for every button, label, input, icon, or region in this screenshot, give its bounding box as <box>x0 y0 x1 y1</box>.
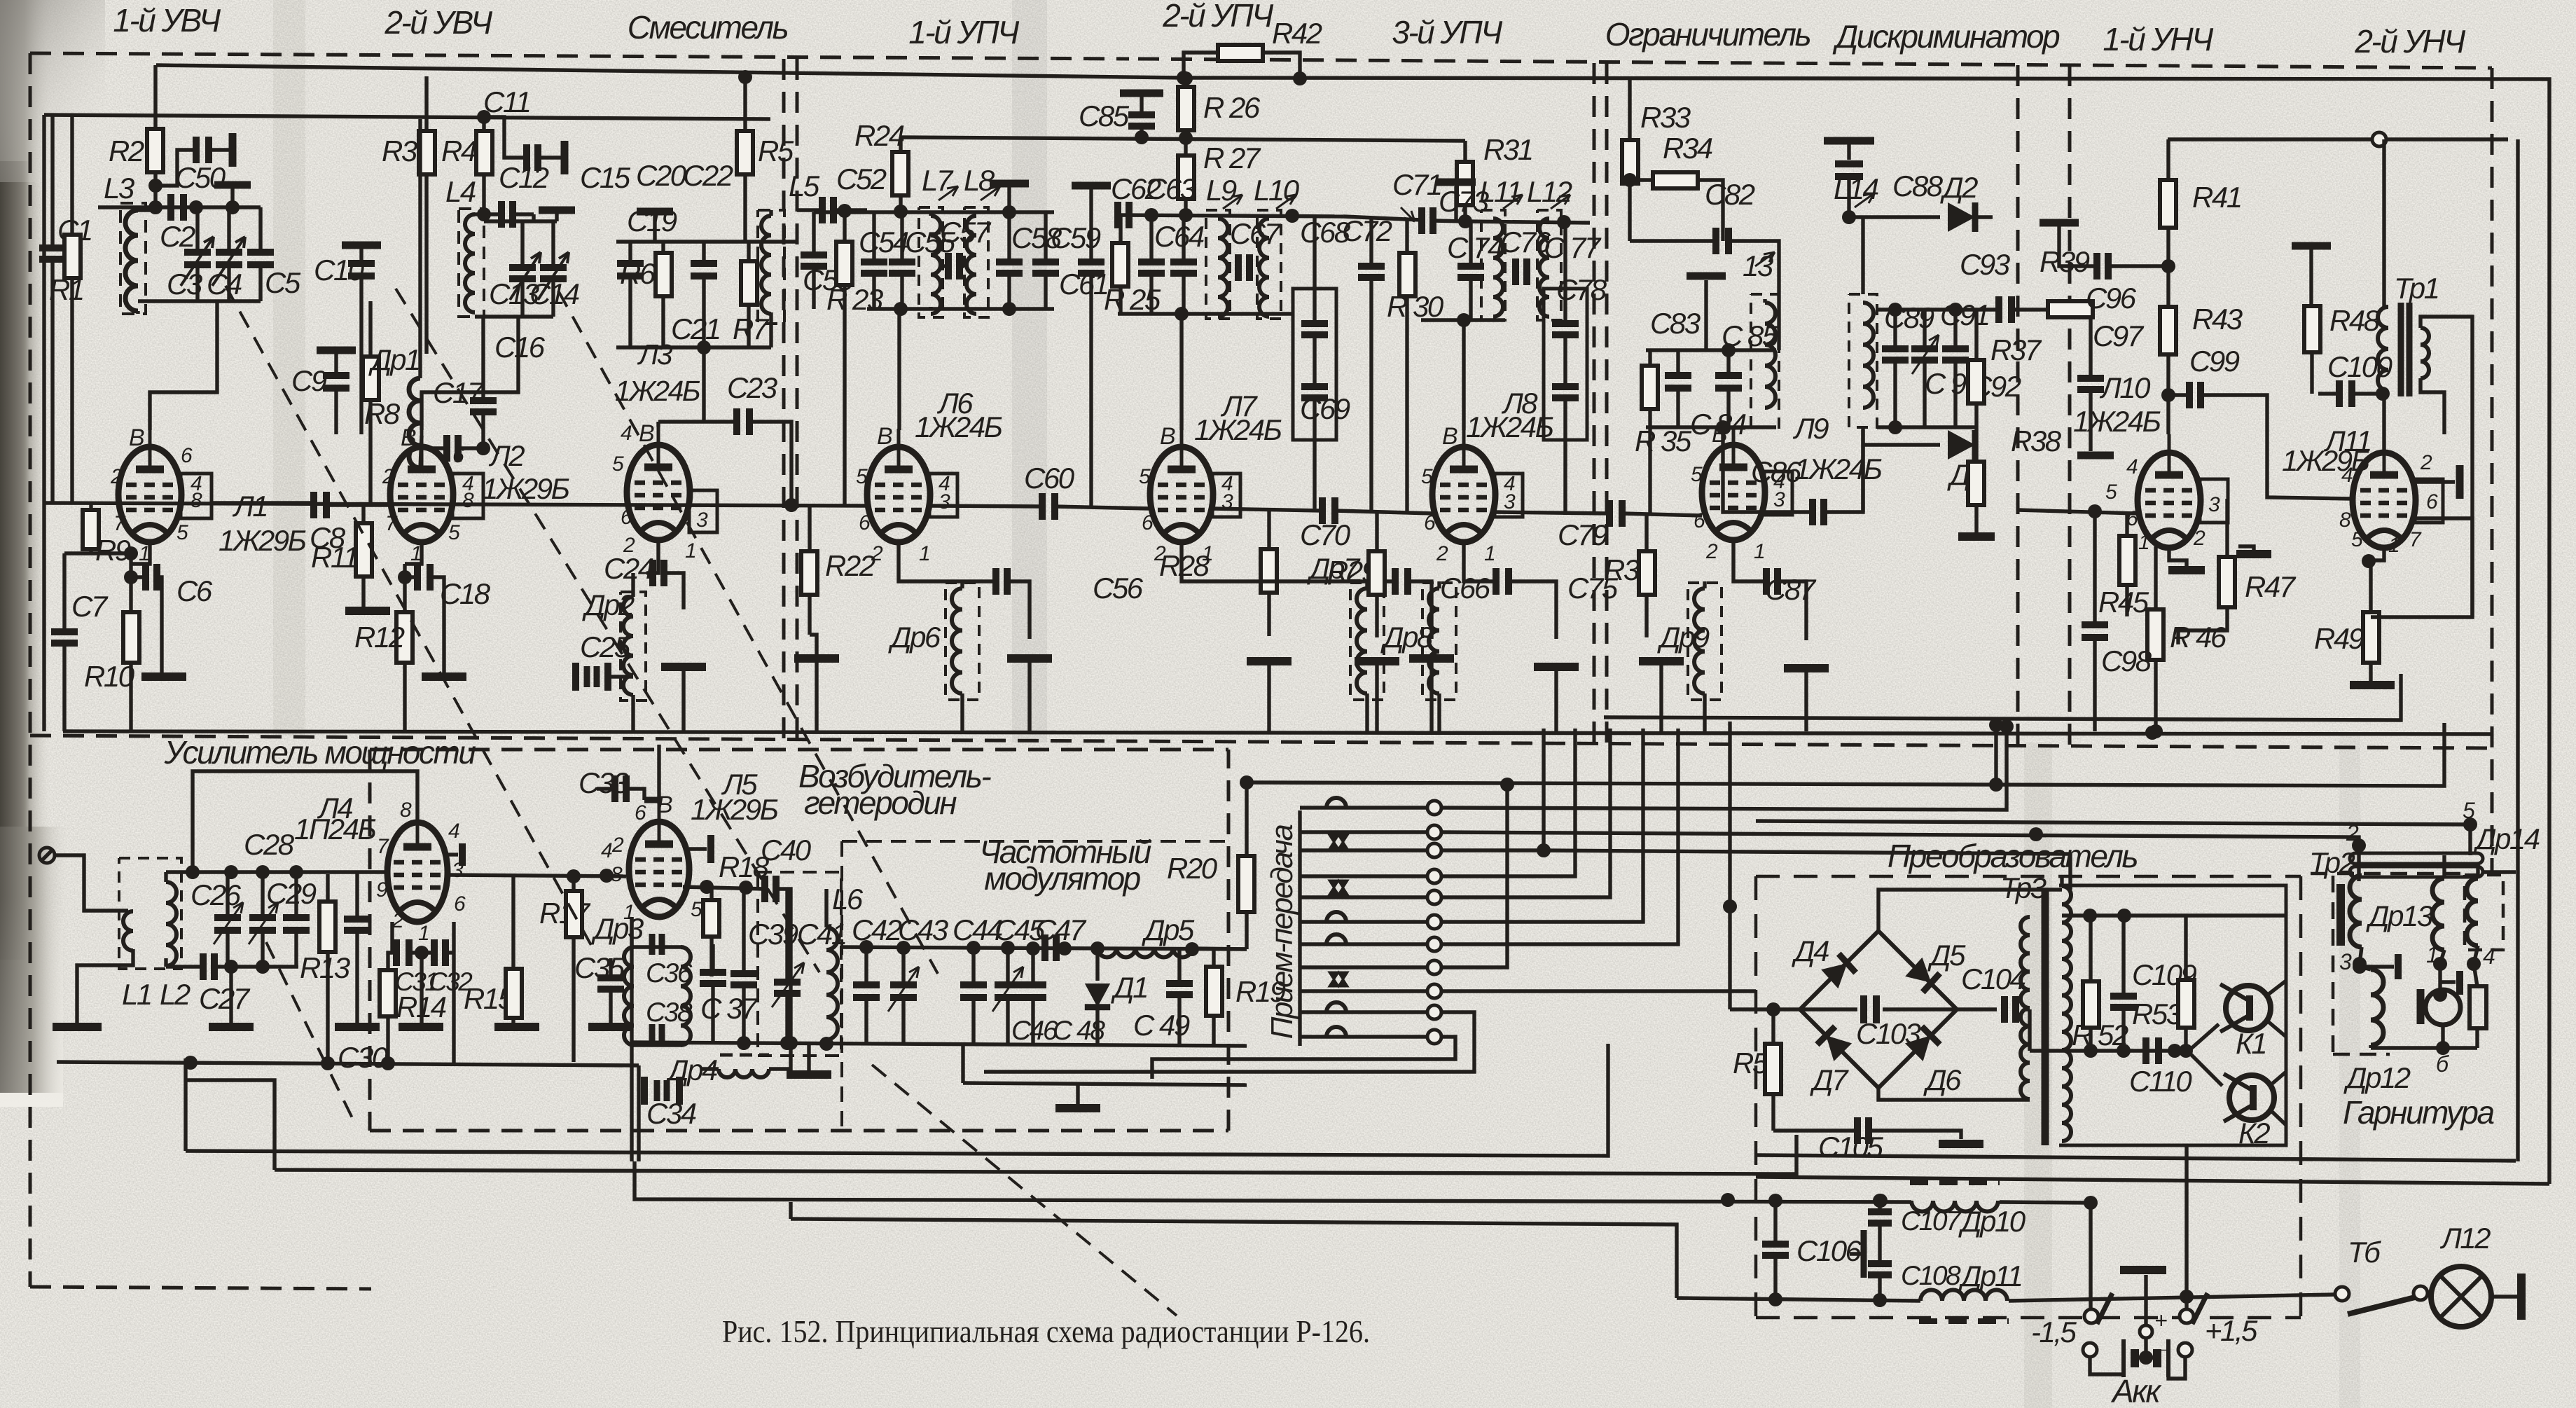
resistor R11 label <box>311 541 357 574</box>
svg-text:R9: R9 <box>95 534 131 567</box>
resistor R18 label <box>719 850 770 883</box>
diode D3 (Д3) <box>1863 430 1976 460</box>
transformer Tr2 (Тр2) <box>2341 876 2367 971</box>
resistor R8 label <box>364 397 401 430</box>
section label Возбудитель-гетеродин <box>798 758 991 821</box>
capacitor C47 label <box>1035 913 1087 946</box>
capacitor C64 <box>1138 215 1165 314</box>
svg-text:Д4: Д4 <box>1792 934 1829 967</box>
resistor R9 <box>64 504 138 560</box>
capacitor C89 label <box>1884 301 1934 334</box>
long line L3 <box>635 1161 2098 1210</box>
switch row10 wire <box>984 1012 1474 1072</box>
resistor R36 <box>1639 516 1655 637</box>
modulator sub line <box>963 1044 1247 1108</box>
capacitor C11 <box>477 110 565 174</box>
transformer Tr3 label <box>2000 871 2047 904</box>
capacitor C83 <box>1665 350 1691 427</box>
capacitor C82 label <box>1705 178 1755 211</box>
svg-text:Л10: Л10 <box>2099 371 2151 404</box>
capacitor C62 label <box>1111 172 1161 205</box>
svg-text:Др6: Др6 <box>888 621 941 654</box>
capacitor C53 label <box>803 263 853 296</box>
section label 2-й УНЧ <box>2354 23 2466 60</box>
capacitor C16 <box>470 317 497 448</box>
svg-text:R4: R4 <box>441 134 476 167</box>
svg-text:В: В <box>129 425 144 451</box>
trimmer capacitor C90 <box>1911 310 1939 427</box>
svg-text:С 77: С 77 <box>1544 231 1602 264</box>
capacitor C96 <box>2040 223 2168 279</box>
capacitor C20a <box>617 242 644 347</box>
resistor R24 label <box>854 119 904 152</box>
choke Dr7 (Др7) <box>1350 581 1384 731</box>
capacitors C68 C69 block <box>1293 216 1336 509</box>
capacitor C50 label <box>175 161 226 194</box>
converter block frame <box>2059 885 2286 1145</box>
lamp V12 (Л12) label <box>2439 1222 2491 1255</box>
headset bottom wire <box>2371 1041 2477 1055</box>
svg-text:Усилитель мощности: Усилитель мощности <box>164 734 476 771</box>
svg-text:С104: С104 <box>1961 962 2026 995</box>
stage1 tank bottom tie <box>138 301 261 430</box>
svg-text:Др3: Др3 <box>591 912 644 945</box>
resistor R4 label <box>441 134 476 167</box>
exciter dashed box <box>370 750 1228 1131</box>
capacitor C72 <box>1358 216 1385 512</box>
capacitor C42 label <box>852 913 902 946</box>
capacitor C17 <box>429 435 490 462</box>
capacitor C16 label <box>494 331 546 364</box>
capacitor C106 label <box>1796 1234 1862 1267</box>
tube V3 (Л3) label <box>615 338 700 407</box>
svg-text:В: В <box>1160 423 1175 450</box>
svg-text:4: 4 <box>601 839 612 862</box>
PA anode frame wire <box>186 771 417 879</box>
limiter tank top tie <box>1646 343 1776 357</box>
tube V3 pin labels <box>612 420 708 562</box>
svg-text:C18: C18 <box>440 577 491 610</box>
capacitor C40 <box>765 876 791 1044</box>
toggle switch Тб <box>2335 1286 2428 1314</box>
feedthrough capacitor C25 <box>576 663 633 691</box>
switch contact row 10 <box>1300 1002 1441 1019</box>
capacitor C97 <box>2077 310 2114 455</box>
screen rail <box>901 137 1465 141</box>
capacitor C66 <box>1182 542 1432 639</box>
svg-text:С30: С30 <box>338 1041 389 1074</box>
IF1 tank top tie <box>814 204 1054 219</box>
IF3 grounds <box>1355 661 1579 731</box>
svg-text:Д1: Д1 <box>1111 971 1147 1004</box>
tube V1 (Л1) <box>118 429 212 542</box>
svg-text:+1,5: +1,5 <box>2205 1314 2258 1347</box>
svg-text:L5: L5 <box>789 170 820 202</box>
svg-text:С83: С83 <box>1650 307 1701 340</box>
inductor L10 <box>1257 210 1281 319</box>
svg-text:1: 1 <box>418 922 429 945</box>
choke Dr10 (Др10) <box>1910 1182 2000 1212</box>
capacitor C25 label <box>580 630 631 663</box>
svg-text:R41: R41 <box>2192 181 2241 214</box>
svg-text:4: 4 <box>2341 464 2353 487</box>
svg-text:R24: R24 <box>854 119 904 152</box>
capacitor C6 <box>124 542 162 672</box>
capacitor C28c <box>283 872 310 967</box>
capacitor C47 <box>1045 934 1056 961</box>
capacitor C12 label <box>499 161 549 194</box>
svg-text:L2: L2 <box>160 978 191 1011</box>
choke Dr11 label <box>1958 1259 2022 1292</box>
svg-text:4: 4 <box>621 422 632 445</box>
switch row7 wire <box>1441 729 1678 944</box>
resistor R7 <box>741 242 757 347</box>
resistor R6 label <box>620 257 656 290</box>
capacitor C84 <box>1715 350 1742 427</box>
capacitor C7 <box>51 553 78 731</box>
svg-text:1: 1 <box>2388 534 2399 557</box>
svg-text:4: 4 <box>448 820 459 843</box>
svg-text:Рис. 152. Принципиальная схема: Рис. 152. Принципиальная схема радиостан… <box>722 1314 1370 1349</box>
phone <box>2470 964 2486 1048</box>
capacitor C9 label <box>291 364 327 397</box>
section label 2-й УПЧ <box>1162 0 1274 34</box>
lamp V12 (Л12) <box>2431 1266 2521 1327</box>
capacitor C29 label <box>266 877 317 910</box>
resistor R30 label <box>1387 290 1444 323</box>
resistor R2 <box>147 65 163 214</box>
discriminator top tie <box>1877 303 1976 317</box>
svg-text:Д7: Д7 <box>1810 1063 1849 1096</box>
svg-text:С63: С63 <box>1146 172 1196 205</box>
svg-text:Дискриминатор: Дискриминатор <box>1832 18 2060 55</box>
choke Dr4 label <box>665 1054 717 1086</box>
capacitor C60 <box>929 493 1149 520</box>
pin 5 label <box>2463 798 2475 823</box>
capacitor C28 label <box>244 828 295 861</box>
svg-text:R11: R11 <box>311 541 357 574</box>
capacitor C91 label <box>1940 298 1989 331</box>
svg-text:4: 4 <box>2483 944 2495 969</box>
long line L2 <box>186 1080 1796 1174</box>
IF1 tank bottom tie <box>867 302 1054 316</box>
capacitor C52 <box>797 197 867 223</box>
capacitor C33 label <box>579 766 629 799</box>
converter node line <box>2062 909 2286 923</box>
tube V10 (Л10) label <box>2073 371 2161 438</box>
tube V9 (Л9) label <box>1792 412 1882 485</box>
resistor R45 label <box>2098 586 2149 619</box>
signal line stage1-3 <box>44 503 868 506</box>
svg-text:C25: C25 <box>580 630 631 663</box>
capacitor C63 <box>1170 215 1197 314</box>
resistor R27 <box>1178 139 1194 215</box>
section divider Дискриминатор/1-й УНЧ <box>2016 65 2020 745</box>
svg-text:Др1: Др1 <box>368 343 420 376</box>
section label 1-й УНЧ <box>2103 21 2214 57</box>
switch row1 wire <box>1441 719 2014 810</box>
svg-text:R39: R39 <box>2040 245 2090 278</box>
tube V6 pin labels <box>856 423 950 565</box>
capacitor C45b <box>1020 948 1046 1044</box>
inductor L7 <box>919 207 943 317</box>
resistor R2 label <box>109 134 144 167</box>
choke Dr3 (Др3) <box>624 917 691 1045</box>
svg-text:C24: C24 <box>604 552 653 585</box>
IF2 tank top tie <box>1118 208 1343 223</box>
gang dashed diagonal C <box>558 291 938 974</box>
svg-text:1: 1 <box>1484 542 1495 565</box>
svg-text:С38: С38 <box>646 998 693 1028</box>
transformer L4 <box>459 209 484 317</box>
capacitor C93 label <box>1960 248 2010 281</box>
stage3 tank top tie <box>616 212 798 242</box>
svg-text:Преобразователь: Преобразователь <box>1888 838 2137 874</box>
resistor R35 label <box>1635 425 1692 457</box>
limiter grounds <box>1639 661 1829 731</box>
resistor R49 label <box>2314 622 2364 655</box>
resistor R14 label <box>396 991 446 1023</box>
V11 cathode wire <box>2371 518 2472 617</box>
svg-text:С56: С56 <box>1093 572 1144 605</box>
svg-text:R12: R12 <box>354 621 405 654</box>
capacitor C30 label <box>338 1041 389 1074</box>
capacitor C73 label <box>1439 185 1489 218</box>
tube V8 anode riser <box>1462 320 1465 430</box>
svg-text:R49: R49 <box>2314 622 2364 655</box>
svg-text:R22: R22 <box>825 549 875 582</box>
capacitor C84 label <box>1690 408 1746 441</box>
svg-text:R37: R37 <box>1990 333 2042 366</box>
choke Dr13 label <box>2366 899 2433 932</box>
inductor L14 label <box>1834 172 1878 207</box>
capacitor C23 label <box>727 371 777 404</box>
capacitor C99 <box>2168 382 2353 499</box>
capacitor C27 label <box>199 982 251 1015</box>
capacitor C44 <box>960 948 987 1044</box>
pin 5 node <box>1756 817 2477 855</box>
capacitor C89 <box>1882 310 1909 427</box>
choke Dr1 label <box>368 343 420 376</box>
choke Dr9 (Др9) <box>1688 581 1722 731</box>
chassis bar at V11 <box>2415 465 2460 499</box>
svg-text:С82: С82 <box>1705 178 1755 211</box>
capacitor C32 label <box>429 967 473 996</box>
resistor R36 label <box>1604 553 1655 586</box>
capacitor C11 label <box>483 85 529 118</box>
capacitor C87 <box>1733 540 1806 640</box>
inductor L13 <box>1751 294 1779 427</box>
svg-text:1: 1 <box>685 539 695 562</box>
trimmer capacitor C29 <box>249 872 278 967</box>
svg-text:C3: C3 <box>167 268 202 301</box>
svg-text:С107: С107 <box>1901 1206 1962 1236</box>
tube V9 pin labels <box>1691 421 1785 563</box>
svg-text:C22: C22 <box>683 159 733 192</box>
svg-text:С9: С9 <box>291 364 327 397</box>
resistor R1 label <box>49 273 83 306</box>
svg-text:C10: C10 <box>314 254 365 287</box>
resistor R34 label <box>1663 132 1712 165</box>
capacitor C40 label <box>761 834 812 867</box>
capacitor C24 <box>646 540 684 609</box>
capacitor C68 label <box>1300 216 1351 249</box>
capacitor C39 label <box>748 918 798 951</box>
capacitor C86 <box>1723 427 1863 525</box>
svg-text:C50: C50 <box>175 161 226 194</box>
svg-text:В: В <box>1442 423 1457 450</box>
svg-text:Тб: Тб <box>2348 1236 2381 1269</box>
svg-text:C12: C12 <box>499 161 549 194</box>
svg-text:С60: С60 <box>1024 462 1075 495</box>
svg-text:С33: С33 <box>579 766 629 799</box>
discriminator ground <box>1958 532 1995 541</box>
svg-text:C15: C15 <box>580 161 631 194</box>
long line L5 <box>1756 1155 2516 1161</box>
section label Смеситель <box>628 9 788 46</box>
capacitor C110 label <box>2129 1065 2192 1098</box>
inductor L10 label <box>1254 174 1300 209</box>
anode supply rail <box>156 65 2549 1184</box>
IF3 tank bottom tie <box>1421 313 1505 327</box>
capacitor C36 label <box>646 958 693 988</box>
switch contact row 3 <box>1300 843 1441 857</box>
PA grid line <box>166 865 626 883</box>
trimmer capacitor C3 <box>184 207 211 301</box>
capacitor C35 <box>588 958 633 1027</box>
inductor L5 label <box>789 170 820 202</box>
long line L8 <box>1756 1177 2549 1184</box>
tube V11 pin labels <box>2339 451 2438 557</box>
svg-text:R7: R7 <box>733 312 770 345</box>
V5 anode wire <box>657 745 660 803</box>
capacitor C78 label <box>1556 273 1607 306</box>
exciter bottom tie <box>630 1036 1247 1051</box>
svg-text:С89: С89 <box>1884 301 1934 334</box>
tube V7 (Л7) <box>1150 429 1240 542</box>
capacitor C9 <box>317 350 356 434</box>
svg-text:R5: R5 <box>758 134 794 167</box>
resistor R20 <box>1238 782 1254 949</box>
resistor R29 label <box>1327 555 1378 588</box>
inductor L6 <box>826 889 838 1044</box>
resistor R27 label <box>1203 142 1261 174</box>
capacitor C96 label <box>2086 282 2137 315</box>
label -1,5 <box>2031 1316 2077 1348</box>
resistor R3 label <box>382 134 417 167</box>
trimmer capacitor C14 <box>540 221 567 317</box>
svg-text:С97: С97 <box>2093 319 2145 352</box>
tube V2 pin labels <box>382 425 474 565</box>
choke Dr7 label <box>1307 552 1361 585</box>
svg-text:1Ж24Б: 1Ж24Б <box>915 410 1002 443</box>
transistor K1 label <box>2236 1027 2266 1060</box>
capacitor C4 label <box>207 268 242 301</box>
svg-text:L3: L3 <box>104 172 134 205</box>
resistor R31 label <box>1483 133 1532 166</box>
IF3 tank top tie <box>1465 215 1590 229</box>
svg-text:Др5: Др5 <box>1142 913 1195 946</box>
svg-text:R45: R45 <box>2098 586 2149 619</box>
section label Частотный модулятор <box>979 834 1151 897</box>
switch row3 wire <box>1441 729 2070 890</box>
svg-text:R28: R28 <box>1159 549 1210 582</box>
capacitor C85 <box>1120 93 1163 144</box>
capacitor C67 <box>1238 254 1249 281</box>
capacitor C88 <box>1824 141 1874 224</box>
PA tank bottom drop <box>209 967 254 1027</box>
transformer Tr2 label <box>2309 846 2355 879</box>
capacitor C75 <box>1464 542 1556 639</box>
switch contact row 6 <box>1300 912 1441 929</box>
capacitor C21a <box>691 242 717 347</box>
trimmer capacitor C41 <box>772 889 804 1044</box>
section divider 3-й УПЧ/Ограничитель <box>1594 63 1607 744</box>
resistor R43 label <box>2192 303 2243 336</box>
inductor L5 <box>758 210 784 347</box>
pin 3 label <box>2339 949 2352 974</box>
capacitor C108 label <box>1901 1261 1961 1291</box>
resistor R25 label <box>1104 283 1161 316</box>
capacitor C52 label <box>836 163 887 195</box>
section label 3-й УПЧ <box>1392 14 1503 50</box>
svg-text:Л9: Л9 <box>1792 412 1829 445</box>
pin 1 bar <box>2433 964 2460 1002</box>
IF2 tank bottom tie <box>1118 307 1292 321</box>
capacitor C87 label <box>1765 573 1817 606</box>
svg-text:R42: R42 <box>1272 17 1322 50</box>
svg-text:Гарнитура: Гарнитура <box>2343 1094 2494 1131</box>
inductor L12 label <box>1527 175 1572 209</box>
toggle switch Тб label <box>2348 1236 2381 1269</box>
switch contact row 7 <box>1300 934 1441 951</box>
capacitor C103 <box>1800 995 1957 1023</box>
diode D7 (Д7) <box>1817 1026 1852 1061</box>
capacitor C23 <box>658 408 798 512</box>
svg-text:C20: C20 <box>636 159 687 192</box>
headset dashed box <box>2311 874 2503 1054</box>
tube V6 (Л6) <box>867 429 957 542</box>
transformer L4 label <box>445 175 476 208</box>
resistor R5 <box>737 70 753 242</box>
section label 1-й УПЧ <box>908 14 1020 50</box>
transformer L1 L2 <box>77 858 181 1023</box>
feedthrough capacitor C15 <box>539 161 631 221</box>
V4 pin4 chassis bar <box>448 843 462 866</box>
AF ground small <box>2168 548 2205 570</box>
resistor R42 <box>1177 45 1307 85</box>
switch bus <box>1298 810 1301 1046</box>
capacitor C74 label <box>1447 231 1503 264</box>
svg-text:С 49: С 49 <box>1133 1009 1190 1042</box>
inductor L9 label <box>1206 174 1242 209</box>
capacitor C26 label <box>191 878 242 911</box>
choke Dr5 (Др5) <box>1097 948 1247 958</box>
capacitors C77 C78 block <box>1544 223 1587 515</box>
choke Dr5 label <box>1142 913 1195 946</box>
resistor R33 label <box>1640 101 1691 134</box>
svg-text:1: 1 <box>919 542 929 565</box>
capacitor C22 label <box>683 159 733 192</box>
capacitor C73 <box>1457 221 1484 320</box>
long line L1 <box>186 1044 1608 1156</box>
svg-text:1П24Б: 1П24Б <box>294 813 376 846</box>
discriminator bottom tie <box>1877 420 1976 434</box>
diode D1 (Д1) <box>1085 948 1110 1045</box>
tube V1 (Л1) label <box>219 490 306 557</box>
svg-text:С71: С71 <box>1392 168 1441 201</box>
capacitor C61 <box>1072 186 1111 506</box>
